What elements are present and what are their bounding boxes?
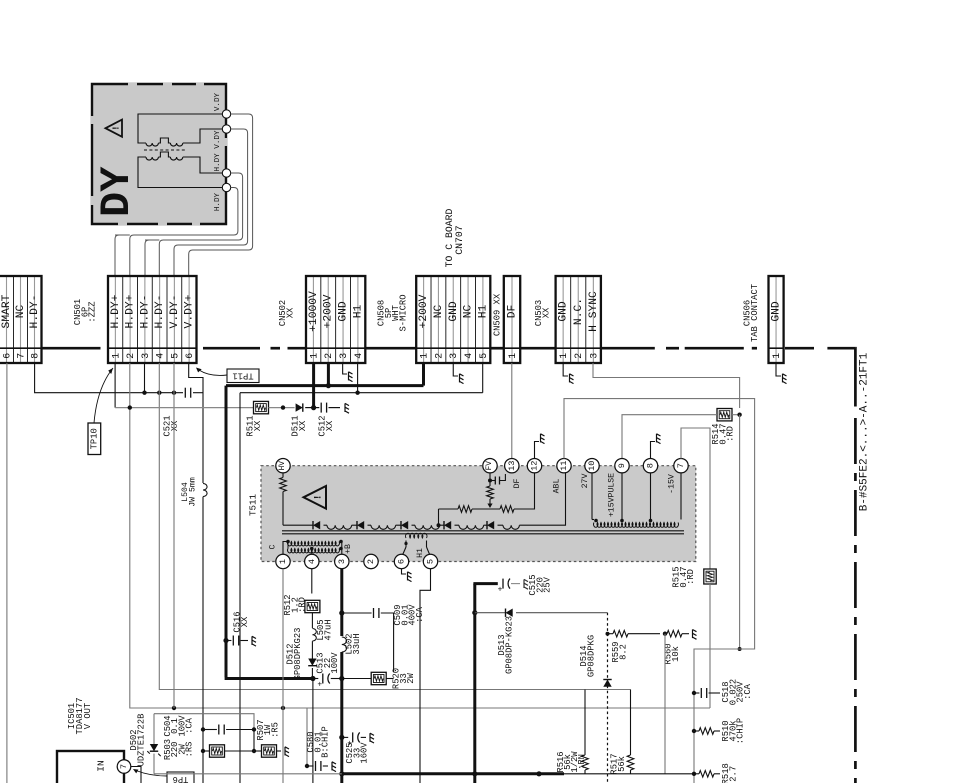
wire -15V route bbox=[681, 428, 710, 569]
junction HV drop bbox=[281, 405, 285, 409]
junction bottom rail x475 bbox=[472, 771, 477, 776]
T511 terminal HV bbox=[276, 459, 290, 473]
svg-text:TP6: TP6 bbox=[173, 774, 189, 783]
svg-text:1: 1 bbox=[308, 353, 319, 359]
wire C504-R503 link bbox=[253, 730, 255, 752]
wire DY H.DY to CN501 pins3-4 bbox=[159, 173, 242, 276]
svg-text:11: 11 bbox=[559, 461, 569, 471]
junction CN501 pin2 R511 row bbox=[128, 405, 132, 409]
svg-text:9: 9 bbox=[617, 463, 627, 468]
T511 FV internal and DF capacitor bbox=[489, 473, 491, 481]
diode D512 bbox=[308, 659, 316, 666]
svg-text:DF: DF bbox=[513, 479, 522, 489]
svg-text:GND: GND bbox=[771, 301, 783, 322]
svg-text:H SYNC: H SYNC bbox=[588, 291, 600, 332]
svg-text::CA: :CA bbox=[743, 683, 753, 700]
wire bottom thin rail bbox=[154, 773, 342, 775]
resistor R559 row bbox=[608, 633, 614, 635]
ground above T511 pin8 bbox=[651, 442, 656, 459]
svg-text::RD: :RD bbox=[686, 569, 696, 585]
svg-text:7: 7 bbox=[119, 764, 129, 769]
svg-text:XX: XX bbox=[298, 420, 308, 431]
svg-text::R5: :R5 bbox=[270, 722, 280, 738]
svg-text:H1: H1 bbox=[352, 305, 364, 319]
svg-text:-15V: -15V bbox=[668, 474, 677, 494]
svg-text:+: + bbox=[317, 681, 322, 690]
svg-text:H1: H1 bbox=[477, 305, 489, 319]
wire H1 left branch down bbox=[239, 393, 241, 783]
capacitor C521 bbox=[184, 388, 186, 398]
DY terminal H.DY V.DY bbox=[222, 125, 230, 133]
svg-text:4: 4 bbox=[353, 353, 364, 359]
junction pin1 line on rail bbox=[281, 706, 285, 710]
resistor R510 bbox=[694, 730, 699, 732]
wire DY to CN501 pin5 bbox=[174, 129, 248, 276]
DY core dashed line bbox=[144, 149, 186, 151]
junction D512 node bbox=[310, 676, 315, 681]
svg-text:2: 2 bbox=[573, 353, 584, 359]
connector CN501 bbox=[114, 277, 116, 362]
junction +1000V node bbox=[311, 405, 316, 410]
wire +200V up to CN508 pin1 bbox=[422, 363, 425, 386]
svg-text::RD: :RD bbox=[298, 597, 308, 613]
T511 terminal 11 bbox=[557, 459, 571, 473]
svg-text:+15VPULSE: +15VPULSE bbox=[608, 473, 617, 517]
svg-text:TP10: TP10 bbox=[90, 428, 100, 449]
wire D512 node down bbox=[312, 679, 314, 783]
svg-text:SMART: SMART bbox=[1, 294, 13, 328]
svg-text::ZZZ: :ZZZ bbox=[88, 301, 98, 322]
junction R560 bbox=[663, 632, 667, 636]
svg-text:XX: XX bbox=[541, 307, 551, 318]
svg-text:8.2: 8.2 bbox=[618, 644, 628, 660]
svg-text:DF: DF bbox=[507, 305, 519, 319]
wire +15V rail thick bbox=[473, 584, 476, 783]
T511 terminal 12 bbox=[527, 459, 541, 473]
svg-text:ABL: ABL bbox=[553, 479, 562, 494]
wire T511 pin3 +B down bbox=[340, 569, 343, 636]
svg-text:7: 7 bbox=[676, 463, 686, 468]
test point TP6 bbox=[167, 772, 194, 783]
svg-text:2: 2 bbox=[125, 353, 136, 359]
wire D511 to +1000V node bbox=[305, 407, 313, 409]
svg-text:TAB CONTACT: TAB CONTACT bbox=[750, 284, 760, 342]
T511 terminal 5 bbox=[423, 554, 437, 568]
svg-text:2W: 2W bbox=[406, 673, 416, 684]
board edge corner and right dash-dot border bbox=[854, 348, 857, 406]
svg-text::RD: :RD bbox=[726, 426, 736, 442]
wire R512 to L505 bbox=[311, 613, 313, 628]
svg-text:1: 1 bbox=[419, 353, 430, 359]
svg-text:N.C.: N.C. bbox=[573, 298, 585, 325]
flyback transformer T511 block bbox=[261, 466, 696, 562]
inductor L504 bbox=[203, 484, 207, 497]
svg-text:3: 3 bbox=[338, 353, 349, 359]
wire R514 node down bbox=[739, 415, 741, 649]
resistor R511 bbox=[254, 401, 269, 413]
resistor R512 bbox=[305, 600, 320, 612]
junction +200V bbox=[326, 383, 331, 388]
wire DY V.DY to CN501 pin6 bbox=[189, 114, 253, 276]
gray loop top bbox=[154, 714, 254, 730]
svg-text:1: 1 bbox=[507, 353, 518, 359]
test point TP10 bbox=[88, 423, 101, 455]
connector CN506 bbox=[775, 277, 777, 362]
svg-text:2: 2 bbox=[366, 559, 376, 564]
resistor R520 bbox=[386, 678, 393, 680]
svg-text:DY: DY bbox=[93, 166, 141, 217]
wire L505 to D512 bbox=[311, 641, 313, 658]
junction R510 bbox=[692, 729, 696, 733]
wire CN501 pin1 down to R511 line bbox=[114, 363, 116, 408]
diode D511 bbox=[296, 403, 303, 411]
deflection yoke DY block bbox=[92, 84, 226, 224]
svg-text:V.DY: V.DY bbox=[214, 92, 222, 111]
resistor R518 bbox=[694, 773, 699, 775]
svg-text::CA: :CA bbox=[185, 717, 195, 734]
svg-text:NC: NC bbox=[15, 305, 27, 319]
IC501 pin 7 bbox=[117, 760, 131, 774]
svg-text:160V: 160V bbox=[360, 742, 370, 764]
wire bottom rail thick bbox=[342, 772, 564, 775]
capacitor C525 bbox=[342, 736, 348, 738]
svg-text:1: 1 bbox=[110, 353, 121, 359]
resistor R503 row bbox=[201, 749, 205, 753]
diode D513 bbox=[475, 612, 506, 614]
T511 terminal 8 bbox=[643, 459, 657, 473]
ground CN503 pin1 bbox=[563, 363, 568, 376]
svg-text:4: 4 bbox=[463, 353, 474, 359]
svg-text:H.DY V.DY: H.DY V.DY bbox=[214, 130, 222, 171]
wire R511 row bbox=[115, 407, 254, 409]
board edge bus line bbox=[42, 347, 101, 350]
wire CN509 DF down to T511 pin13 bbox=[511, 363, 513, 459]
svg-text:3: 3 bbox=[140, 353, 151, 359]
DY terminal V.DY bbox=[222, 110, 230, 118]
wire L504 down bbox=[202, 497, 204, 783]
capacitor C515 bbox=[502, 579, 504, 589]
wire CN502 pin2 +200V down bbox=[327, 363, 330, 386]
svg-text:56k: 56k bbox=[617, 756, 627, 772]
T511 terminal 6 bbox=[394, 554, 408, 568]
vertical out IC IC501 bbox=[57, 751, 124, 783]
svg-text:5: 5 bbox=[426, 559, 436, 564]
svg-text:XX: XX bbox=[253, 420, 263, 431]
connector CN503 bbox=[562, 277, 564, 362]
warning triangle in DY bbox=[106, 120, 123, 137]
junction bottom rail x539 bbox=[536, 771, 541, 776]
inductor L505 bbox=[312, 629, 316, 642]
svg-text:8: 8 bbox=[30, 353, 41, 359]
resistor R560 bbox=[667, 630, 682, 637]
wire CN501 pin6 jog down bbox=[189, 363, 203, 483]
wire R560 node down bbox=[664, 634, 666, 774]
svg-text:CN707: CN707 bbox=[454, 225, 465, 255]
junction +B node D512 row bbox=[339, 676, 344, 681]
wire T511 pin4 down bbox=[311, 569, 313, 594]
svg-text:FV: FV bbox=[486, 461, 494, 471]
svg-text:XX: XX bbox=[240, 616, 250, 627]
T511 HV internal resistor bbox=[282, 473, 284, 478]
connector CN502 bbox=[312, 277, 314, 362]
svg-text:!: ! bbox=[314, 494, 325, 500]
svg-text:4: 4 bbox=[307, 559, 317, 564]
svg-text:B-#S5FE2.<...>-A..-21FT1: B-#S5FE2.<...>-A..-21FT1 bbox=[859, 352, 871, 511]
DY vertical coil loop bbox=[138, 114, 222, 143]
warning triangle in T511 bbox=[304, 486, 327, 509]
svg-text:GP08DP-KG23: GP08DP-KG23 bbox=[504, 616, 514, 674]
capacitor C513 bbox=[313, 678, 318, 680]
svg-text:JW 5mm: JW 5mm bbox=[188, 477, 197, 507]
T511 terminal 13 bbox=[505, 459, 519, 473]
T511 terminal 1 bbox=[276, 554, 290, 568]
connector CN508 bbox=[423, 277, 425, 362]
capacitor C580 bbox=[305, 764, 309, 768]
DY terminal H.DY lower bbox=[222, 183, 230, 191]
junction R514 line on ABL line bbox=[738, 647, 742, 651]
svg-text:13: 13 bbox=[507, 461, 517, 471]
ground CN506 pin1 bbox=[776, 363, 781, 376]
svg-text:2: 2 bbox=[433, 353, 444, 359]
svg-text:100V: 100V bbox=[330, 652, 340, 674]
resistor R517 bbox=[630, 690, 632, 756]
T511 terminal 4 bbox=[305, 554, 319, 568]
zener diode D502 bbox=[153, 714, 155, 744]
svg-text:GND: GND bbox=[558, 301, 570, 322]
T511 terminal 3 bbox=[335, 554, 349, 568]
svg-text:H1: H1 bbox=[416, 548, 425, 558]
junction bottom rail +B bbox=[339, 771, 344, 776]
wire SMART pin6 down bbox=[6, 363, 8, 783]
svg-text:B:CHIP: B:CHIP bbox=[321, 726, 331, 758]
svg-text:H.DY: H.DY bbox=[214, 192, 222, 211]
wire CN503 pin3 H SYNC route bbox=[593, 363, 740, 408]
svg-text:33uH: 33uH bbox=[352, 633, 362, 654]
svg-text:12: 12 bbox=[530, 461, 540, 471]
junction diode chain tap bbox=[437, 523, 441, 527]
diode D514 dashed line bbox=[607, 613, 609, 783]
wire CN502 pin1 +1000V bbox=[312, 363, 315, 408]
svg-text:6: 6 bbox=[184, 353, 195, 359]
svg-text:4: 4 bbox=[155, 353, 166, 359]
junction +B C509 bbox=[339, 610, 344, 615]
T511 terminal FV bbox=[483, 459, 497, 473]
T511 terminal 9 bbox=[615, 459, 629, 473]
capacitor C512 bbox=[314, 407, 320, 409]
svg-text:7: 7 bbox=[16, 353, 27, 359]
ground CN508 pin3 bbox=[453, 363, 458, 376]
svg-text:2.7: 2.7 bbox=[728, 766, 738, 782]
svg-text:47uH: 47uH bbox=[323, 619, 333, 640]
test point TP11 bbox=[227, 369, 259, 383]
junction pin4 on H.DY- net bbox=[157, 391, 161, 395]
T511 H1 winding bbox=[405, 541, 407, 548]
ground after C512 bbox=[344, 403, 346, 412]
junction C518 bbox=[692, 691, 696, 695]
resistor R516 bbox=[584, 690, 586, 756]
svg-text:+1000V: +1000V bbox=[308, 291, 320, 332]
T511 terminal 7 bbox=[674, 459, 688, 473]
svg-text:1: 1 bbox=[771, 353, 782, 359]
capacitor C516 bbox=[223, 638, 228, 643]
svg-text:!: ! bbox=[112, 125, 122, 130]
T511 tertiary winding bbox=[591, 473, 593, 520]
svg-text:+200V: +200V bbox=[323, 294, 335, 328]
svg-text:S-MICRO: S-MICRO bbox=[398, 295, 408, 332]
wire DY H.DY to CN501 pins1-2 bbox=[130, 188, 238, 277]
svg-text:V.DY-: V.DY- bbox=[169, 295, 181, 329]
svg-text:TP11: TP11 bbox=[232, 371, 253, 381]
junction R514 node bbox=[737, 413, 741, 417]
svg-text:H.DY-: H.DY- bbox=[139, 295, 151, 329]
svg-text:H.DY+: H.DY+ bbox=[125, 294, 137, 328]
svg-text:GP08DPKG23: GP08DPKG23 bbox=[293, 628, 303, 681]
svg-text:H.DY+: H.DY+ bbox=[110, 294, 122, 328]
svg-text::CHIP: :CHIP bbox=[736, 718, 746, 744]
svg-text:V OUT: V OUT bbox=[83, 703, 93, 729]
wire T511 pin1 down bbox=[282, 569, 284, 783]
svg-text:10k: 10k bbox=[671, 646, 681, 662]
svg-text:+200V: +200V bbox=[418, 294, 430, 328]
T511 core lines bbox=[282, 530, 684, 532]
T511 primary diode chain bbox=[283, 524, 313, 526]
svg-text:UDZTE1722B: UDZTE1722B bbox=[136, 714, 146, 767]
svg-text:T511: T511 bbox=[248, 493, 259, 516]
svg-text:5: 5 bbox=[478, 353, 489, 359]
svg-text:2: 2 bbox=[323, 353, 334, 359]
svg-text:10: 10 bbox=[587, 461, 597, 471]
svg-text:3: 3 bbox=[337, 559, 347, 564]
wire CN501 pin4 down then right rail bbox=[159, 363, 630, 690]
wire R511 to D511 bbox=[269, 407, 295, 409]
ground above T511 pin12 bbox=[535, 442, 540, 459]
svg-text:H.DY-: H.DY- bbox=[29, 295, 41, 329]
svg-text:GND: GND bbox=[338, 301, 350, 322]
junction pin5 on rail bbox=[172, 706, 176, 710]
resistor R507 row bbox=[254, 750, 262, 752]
junction C525 bbox=[339, 735, 344, 740]
inductor L502 in +B line bbox=[342, 637, 347, 652]
svg-text:NC: NC bbox=[463, 305, 475, 319]
resistor R515 bbox=[704, 569, 716, 584]
wire +200V down left branch bbox=[225, 386, 228, 678]
svg-text:25V: 25V bbox=[543, 576, 553, 593]
DY terminal H.DY upper bbox=[222, 169, 230, 177]
svg-text:GND: GND bbox=[448, 301, 460, 322]
capacitor C509 snubber bbox=[342, 612, 372, 614]
svg-text:IN: IN bbox=[96, 760, 107, 771]
T511 internal resistor row bbox=[439, 508, 459, 510]
T511 terminal 10 bbox=[585, 459, 599, 473]
svg-text:6: 6 bbox=[397, 559, 407, 564]
junction R518 bbox=[692, 772, 696, 776]
svg-text:GP08DPKG: GP08DPKG bbox=[586, 635, 596, 677]
wire +200V horizontal bbox=[226, 384, 424, 387]
svg-text:HV: HV bbox=[279, 461, 287, 471]
svg-text::RN: :RN bbox=[577, 754, 587, 770]
svg-text:8: 8 bbox=[646, 463, 656, 468]
wire D512 to node bbox=[311, 668, 313, 679]
connector CN509 bbox=[511, 277, 513, 362]
junction pin5 on H.DY- net bbox=[172, 391, 176, 395]
svg-text:+: + bbox=[498, 586, 503, 595]
wire H.DY- pin8 net bbox=[35, 363, 183, 393]
capacitor C504 row bbox=[201, 727, 205, 731]
capacitor C518 bbox=[694, 692, 699, 694]
DY horizontal coil loop bbox=[138, 157, 222, 188]
ground CN502 pin3 bbox=[343, 363, 347, 374]
svg-text:3: 3 bbox=[588, 353, 599, 359]
T511 secondary winding bbox=[288, 542, 340, 546]
svg-text:NC: NC bbox=[433, 305, 445, 319]
wire C580 feeder bbox=[306, 708, 308, 766]
svg-text:6: 6 bbox=[2, 353, 13, 359]
svg-text:XX: XX bbox=[325, 420, 335, 431]
svg-text:1: 1 bbox=[558, 353, 569, 359]
svg-text:27V: 27V bbox=[581, 474, 590, 489]
svg-text::CA: :CA bbox=[415, 606, 425, 623]
junction D513 node bbox=[472, 610, 477, 615]
svg-text:V.DY+: V.DY+ bbox=[184, 294, 196, 328]
T511 terminal 2 bbox=[364, 554, 378, 568]
wire ABL route bbox=[564, 399, 755, 783]
svg-text:XX: XX bbox=[170, 420, 180, 431]
svg-text:C: C bbox=[269, 544, 278, 549]
wire +B down to bottom bbox=[340, 652, 343, 783]
wire CN501 pin2 down then right rail bbox=[130, 363, 710, 708]
junction pin3 on H.DY- net bbox=[144, 363, 146, 393]
ground T511 pin6 bbox=[402, 569, 407, 574]
svg-text:H.DY-: H.DY- bbox=[154, 295, 166, 329]
wire CN502 pin4 H1 down bbox=[357, 363, 359, 393]
wire CN508 pin5 H1 down bbox=[482, 363, 484, 393]
wire CN501 pin5 down bbox=[173, 363, 175, 708]
svg-text::RS: :RS bbox=[185, 742, 195, 758]
svg-text:1: 1 bbox=[278, 559, 288, 564]
wire H1 horizontal bbox=[240, 392, 483, 394]
resistor R514 bbox=[717, 409, 732, 421]
svg-text:XX: XX bbox=[285, 307, 295, 318]
svg-text:3: 3 bbox=[448, 353, 459, 359]
svg-text:CN509 XX: CN509 XX bbox=[493, 293, 503, 336]
wire T511 pin5 H1 out bbox=[420, 569, 431, 783]
svg-text:+B: +B bbox=[344, 544, 353, 554]
svg-text:5: 5 bbox=[169, 353, 180, 359]
